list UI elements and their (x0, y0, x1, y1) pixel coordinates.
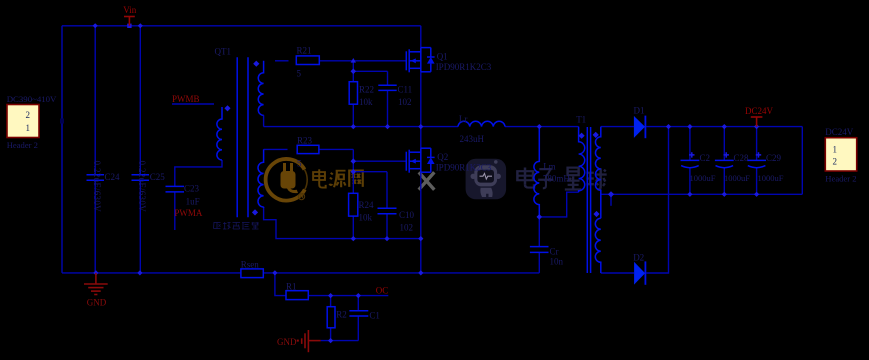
QT1 top secondary polarity dot (253, 61, 259, 67)
wire gate1 drop (352, 61, 354, 82)
wire C1 bottom lead (357, 316, 359, 341)
svg-text:T1: T1 (576, 115, 586, 125)
diode D2 (634, 261, 645, 284)
svg-text:OC: OC (376, 286, 389, 296)
svg-text:0.22uF/630V: 0.22uF/630V (137, 161, 147, 213)
wire Lr to T1 primary (505, 126, 579, 128)
node 0V rail / C2 (687, 192, 692, 197)
svg-text:Q2: Q2 (437, 152, 448, 162)
mosfet Q1 (406, 48, 434, 73)
node RC bottom / R2 (328, 338, 333, 343)
svg-text:IPD90R1K2C3: IPD90R1K2C3 (436, 163, 492, 173)
diode D1 (634, 116, 646, 139)
wire C11 bottom lead (387, 90, 389, 126)
capacitor C2 electrolytic (681, 152, 700, 168)
watermark text yuan (330, 171, 346, 188)
svg-text:R21: R21 (297, 46, 312, 56)
svg-text:780mH: 780mH (543, 174, 571, 184)
wire Cr bottom lead (538, 252, 540, 273)
svg-text:1uF: 1uF (186, 197, 200, 207)
wire Q2 source rail (264, 207, 421, 239)
svg-text:C11: C11 (398, 85, 413, 95)
wire R2 top lead (330, 296, 332, 307)
T1 bottom secondary polarity dot (593, 211, 599, 217)
capacitor C1 (349, 311, 368, 316)
svg-text:Header 2: Header 2 (825, 173, 856, 183)
node top rail / C25 (138, 23, 143, 28)
resistor R24 (349, 193, 358, 216)
watermark registered mark (298, 193, 304, 199)
resistor Rsen (241, 269, 263, 278)
node A / C11 (385, 124, 390, 129)
wire C1 top lead (357, 296, 359, 311)
node 0V rail / C28 (722, 192, 727, 197)
wire C11 top lead (387, 71, 389, 85)
svg-text:5: 5 (297, 69, 302, 79)
wire Q1 drain (420, 26, 422, 48)
wire R1 leg (275, 273, 286, 296)
transformer T1 primary winding (579, 127, 585, 193)
capacitor C28 electrolytic (715, 152, 734, 168)
watermark text xing (565, 168, 582, 190)
wire C29 column (756, 127, 758, 161)
ground GND left earth symbol (84, 273, 108, 295)
wire Q2 source to ground rail (420, 239, 422, 273)
svg-text:5: 5 (297, 159, 302, 169)
node source rail / R24 (351, 236, 356, 241)
wire R22 bottom lead (352, 104, 354, 126)
wire C25 column lower (139, 180, 141, 273)
capacitor C24 (87, 175, 105, 180)
WATERMARKS (214, 159, 607, 229)
wire PWMA net stub (174, 192, 176, 230)
node Lm / Cr (537, 214, 543, 220)
svg-text:10k: 10k (359, 213, 373, 223)
wire +24V output rail (646, 126, 802, 128)
svg-text:C24: C24 (105, 172, 121, 182)
header2 right connector box (825, 138, 856, 171)
wire T1 secondary top to D1 anode (601, 126, 634, 128)
svg-text:R23: R23 (297, 136, 313, 146)
capacitor Cr (530, 247, 549, 253)
capacitor C11 (378, 85, 396, 90)
wire top +HV rail (62, 25, 421, 27)
watermark text qiu (586, 168, 606, 189)
wire Q2 drain (420, 127, 422, 149)
svg-text:C1: C1 (369, 311, 380, 321)
watermark gray X (419, 172, 435, 189)
wire QT1 top secondary bottom lead (263, 115, 265, 126)
svg-text:C10: C10 (399, 210, 415, 220)
wire QT1 primary bottom to C23 (175, 160, 222, 186)
watermark text dian (313, 169, 326, 187)
T1 top secondary polarity dot (593, 132, 599, 138)
wire C24 column upper (94, 26, 96, 175)
transformer QT1 top secondary winding (258, 61, 263, 116)
wire C25 column upper (139, 26, 141, 175)
label Chinese drive transformer (214, 222, 260, 229)
svg-text:R24: R24 (359, 200, 375, 210)
wire Lm bottom to Cr (538, 217, 540, 247)
wire D2 cathode riser (646, 127, 668, 273)
wire R2 bottom lead (330, 328, 332, 341)
svg-text:C2: C2 (700, 153, 711, 163)
wire D2 anode (601, 272, 634, 274)
svg-text:R22: R22 (359, 85, 374, 95)
svg-text:1000uF: 1000uF (724, 173, 750, 183)
svg-text:Lm: Lm (543, 162, 556, 172)
svg-text:Q1: Q1 (437, 52, 448, 62)
wire PWMB net (172, 103, 214, 105)
inductor Lm (534, 127, 539, 217)
svg-text:GND: GND (87, 297, 107, 307)
wire QT1 bottom secondary to R23 (264, 148, 288, 150)
node ground rail / GND (93, 270, 98, 275)
svg-text:PWMA: PWMA (174, 208, 203, 218)
transformer QT1 bottom secondary winding (258, 149, 264, 207)
POWER SYMBOLS (84, 17, 762, 353)
header2 left connector box (7, 105, 39, 138)
svg-text:1: 1 (833, 145, 838, 155)
svg-text:2: 2 (833, 157, 838, 167)
wire C28 column (723, 127, 725, 161)
svg-text:PWMB: PWMB (172, 94, 200, 104)
power port DC24V (751, 117, 763, 127)
inductor Lr (458, 121, 505, 126)
mosfet Q2 (406, 148, 434, 173)
node top rail / Vin (127, 24, 131, 28)
node gate1 sub (351, 69, 357, 75)
wire gate2 drop (352, 149, 354, 193)
T1 primary polarity dot (579, 133, 585, 139)
wire C24 column lower (94, 180, 96, 273)
svg-text:R1: R1 (286, 281, 297, 291)
svg-text:C29: C29 (766, 153, 782, 163)
node left bus / header (60, 119, 64, 124)
svg-text:1000uF: 1000uF (758, 173, 784, 183)
capacitor C25 (132, 175, 150, 180)
svg-text:Header 2: Header 2 (7, 140, 38, 150)
wire to Q2 gate (353, 160, 406, 162)
svg-text:Cr: Cr (550, 247, 559, 257)
wire Q1 source (420, 72, 422, 127)
wire R21 to Q1 gate (319, 60, 406, 62)
node source rail / Q2 (418, 236, 423, 241)
resistor R22 (349, 82, 357, 105)
QT1 bottom secondary polarity dot (252, 209, 258, 215)
svg-text:D2: D2 (633, 253, 644, 263)
transformer T1 core (587, 127, 590, 273)
node OC / C1 (356, 293, 361, 298)
svg-text:IPD90R1K2C3: IPD90R1K2C3 (436, 62, 492, 72)
svg-text:QT1: QT1 (215, 47, 232, 57)
svg-text:1000uF: 1000uF (690, 173, 716, 183)
node top rail / C24 (93, 23, 98, 28)
node out rail / D2 riser (666, 124, 671, 129)
wire bottom ground rail left (62, 272, 241, 274)
wire RC bottom (321, 340, 359, 342)
node gate2 Q2 (351, 158, 357, 164)
wire bottom ground rail right (263, 272, 539, 274)
node A / R22 (351, 124, 356, 129)
svg-text:DC24V: DC24V (825, 127, 854, 137)
wire C2 column (689, 127, 691, 161)
svg-text:R2: R2 (336, 310, 347, 320)
node out rail / C28 (722, 124, 727, 129)
wire gate1 sub horizontal (353, 70, 387, 72)
watermark text zi (538, 169, 553, 188)
wire C10 bottom lead (386, 214, 388, 239)
svg-text:C28: C28 (734, 153, 750, 163)
node gate1 arrow (351, 58, 356, 63)
svg-text:243uH: 243uH (460, 134, 485, 144)
wire left bus (61, 26, 63, 273)
wire tap stub (610, 194, 612, 206)
node gate2 RC (351, 169, 357, 175)
transformer T1 bottom secondary winding (595, 218, 601, 273)
svg-text:C23: C23 (184, 184, 200, 194)
watermark plug body (281, 163, 299, 193)
wire output right edge (801, 127, 803, 195)
wire Q2 source (420, 172, 422, 238)
node out rail / C2 (687, 124, 692, 129)
transformer QT1 primary winding (217, 107, 222, 160)
watermark text wang (349, 170, 363, 187)
svg-text:Lr: Lr (459, 114, 468, 124)
node ground rail / Q2 source (418, 270, 423, 275)
wire T1 primary return (539, 192, 578, 217)
transformer T1 top secondary winding (595, 127, 600, 219)
resistor R23 (297, 145, 319, 153)
node source rail / C10 (384, 236, 389, 241)
wire node A rail (264, 126, 458, 128)
svg-text:GND: GND (277, 337, 297, 347)
wire QT1 top secondary to R21 (275, 60, 289, 62)
node ground rail / R1 (272, 270, 277, 275)
capacitor C29 electrolytic (747, 152, 766, 168)
resistor R1 (286, 291, 308, 300)
wire T1 center tap rail (601, 193, 803, 195)
svg-text:1: 1 (26, 123, 31, 133)
svg-text:10n: 10n (550, 256, 564, 266)
ground GND bottom earth symbol rotated (297, 330, 321, 352)
svg-text:DC24V: DC24V (745, 106, 774, 116)
wire C10 top lead (386, 172, 388, 209)
wire R23 to gate2 corner (319, 148, 353, 150)
node ground rail / C25 (137, 270, 142, 275)
svg-text:DC390~410V: DC390~410V (7, 94, 57, 104)
wire OC net (308, 295, 388, 297)
svg-text:C25: C25 (150, 172, 166, 182)
resistor R2 (327, 307, 335, 328)
svg-text:102: 102 (398, 97, 412, 107)
power port Vin (124, 17, 135, 26)
node out rail / C29 (754, 124, 759, 129)
svg-text:2: 2 (26, 110, 31, 120)
svg-text:0.22uF/630V: 0.22uF/630V (92, 161, 102, 213)
QT1 primary polarity dot (224, 105, 230, 111)
wire R24 bottom lead (352, 216, 354, 239)
watermark text dian2 (517, 168, 534, 188)
wire gate2 sub horizontal (353, 171, 387, 173)
svg-text:10k: 10k (359, 97, 373, 107)
svg-text:Rsen: Rsen (241, 259, 260, 269)
node A / Q1 source (418, 124, 423, 129)
svg-text:D1: D1 (634, 106, 645, 116)
capacitor C23 (166, 186, 185, 192)
resistor R21 (296, 56, 319, 65)
svg-text:Vin: Vin (123, 5, 136, 15)
svg-text:102: 102 (400, 223, 414, 233)
watermark plug logo circle (266, 159, 308, 201)
watermark robot badge (466, 159, 507, 200)
node 0V rail / C29 (754, 192, 759, 197)
node tap (608, 191, 614, 197)
node OC / R2 (328, 293, 333, 298)
capacitor C10 (378, 208, 397, 214)
node A / Lm (537, 124, 542, 129)
transformer QT1 core (237, 57, 248, 217)
